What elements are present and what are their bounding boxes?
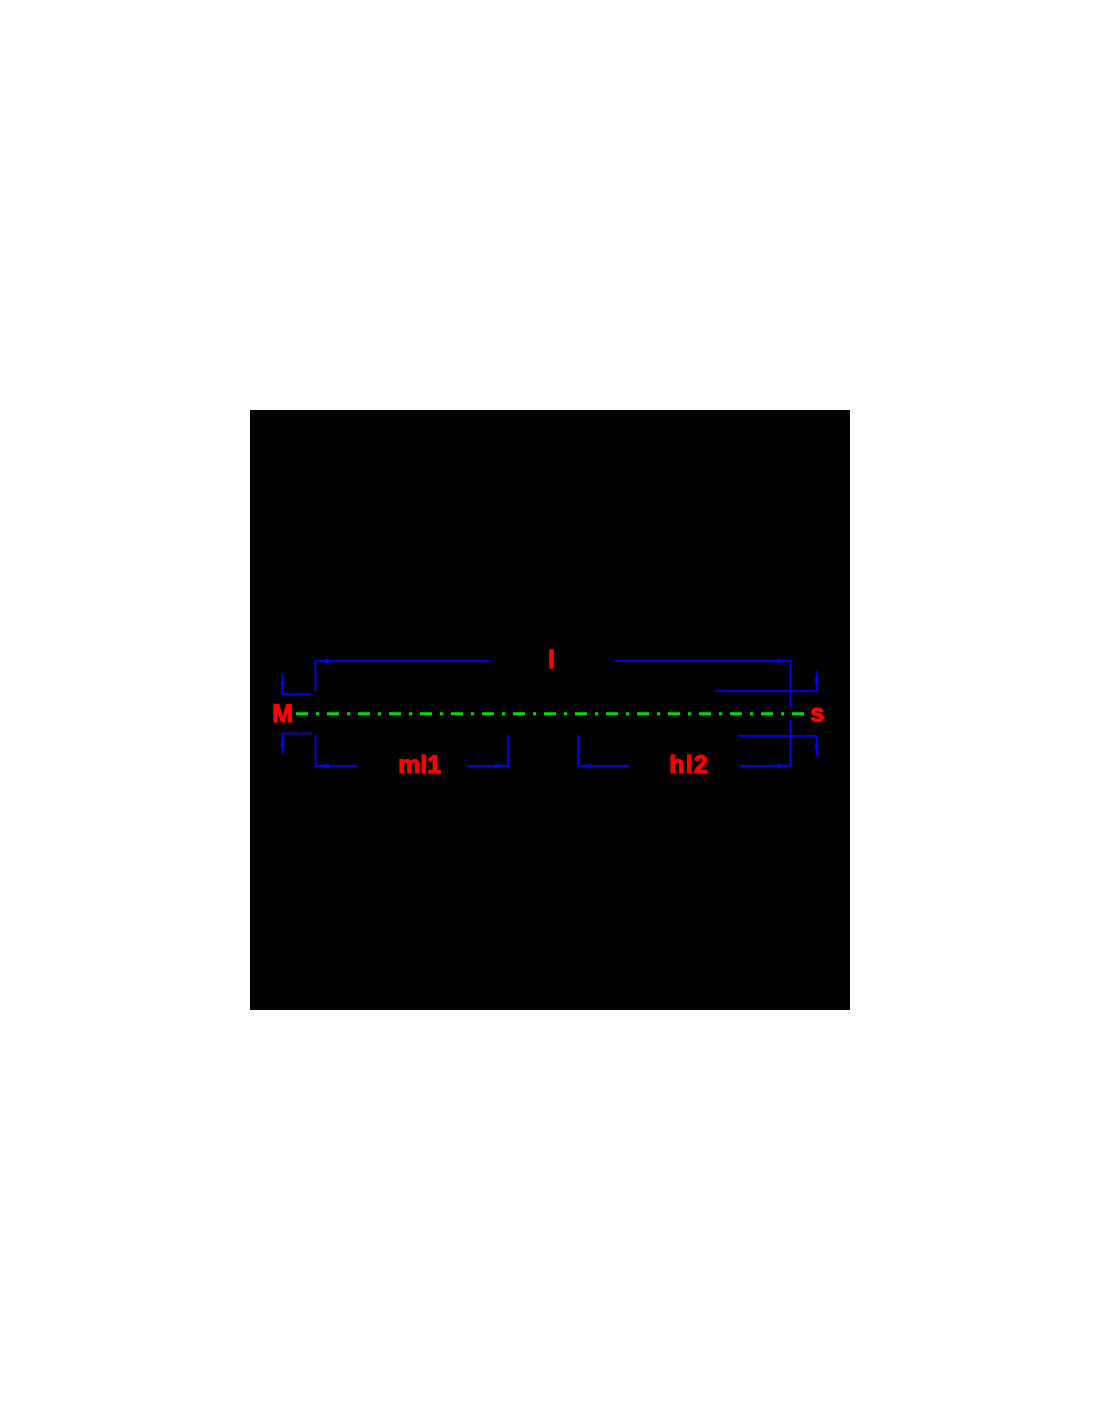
svg-text:ml1: ml1 (398, 751, 441, 779)
svg-text:M: M (272, 700, 293, 728)
svg-text:s: s (811, 700, 825, 728)
svg-text:hl2: hl2 (669, 751, 709, 779)
svg-text:l: l (548, 646, 555, 674)
